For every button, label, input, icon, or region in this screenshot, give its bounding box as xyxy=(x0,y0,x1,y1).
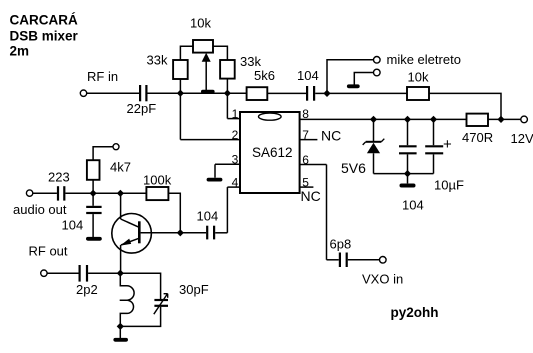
wire pot right end to 33k right xyxy=(213,46,227,60)
svg-text:22pF: 22pF xyxy=(127,101,157,116)
svg-text:NC: NC xyxy=(321,128,341,144)
capacitor 104 audio xyxy=(86,207,101,213)
transistor Q1 body xyxy=(112,214,152,254)
potentiometer 10k body xyxy=(193,40,213,53)
resistor 33k right xyxy=(220,60,235,79)
svg-text:10k: 10k xyxy=(190,16,211,31)
svg-text:RF out: RF out xyxy=(29,244,68,259)
svg-text:5V6: 5V6 xyxy=(341,160,366,176)
svg-text:5k6: 5k6 xyxy=(254,68,275,83)
node junction tank bottom xyxy=(117,323,124,330)
pot wiper arrow xyxy=(202,53,211,90)
svg-text:3: 3 xyxy=(232,153,239,167)
capacitor 10uF electrolytic xyxy=(425,146,443,153)
svg-text:4k7: 4k7 xyxy=(110,160,131,175)
node junction C104 top xyxy=(404,116,411,123)
node junction bottom rail xyxy=(404,170,411,177)
svg-text:+: + xyxy=(443,136,452,153)
wire 33k right to node xyxy=(226,79,228,94)
terminal RF in xyxy=(80,90,86,96)
terminal mike eletreto bottom xyxy=(374,69,381,76)
transistor Q1 base bar xyxy=(138,221,141,243)
svg-text:audio out: audio out xyxy=(13,202,67,217)
svg-text:6: 6 xyxy=(302,153,309,167)
resistor 470R xyxy=(467,114,489,126)
node junction audio 4k7 xyxy=(90,190,97,197)
svg-text:100k: 100k xyxy=(143,173,172,188)
wire 470R to 12V terminal xyxy=(488,118,521,120)
trimmer capacitor 30pF xyxy=(154,294,168,315)
node junction 10uF top xyxy=(430,116,437,123)
node junction tank top xyxy=(117,270,124,277)
node junction mike xyxy=(323,90,330,97)
ground mike xyxy=(349,84,358,88)
svg-text:4: 4 xyxy=(232,175,239,189)
terminal VXO in xyxy=(380,257,387,264)
pin 7 stub NC xyxy=(300,139,318,141)
svg-text:8: 8 xyxy=(302,107,309,121)
pin 4 wire to C104 base xyxy=(215,187,240,233)
wire trimmer to bottom node xyxy=(120,307,160,327)
transistor Q1 emitter with arrow xyxy=(120,238,139,273)
terminal mike eletreto top xyxy=(374,57,381,64)
wire 10uF to bottom rail xyxy=(433,154,435,173)
wire 5k6 to C 104 xyxy=(267,92,306,94)
ground tank xyxy=(115,326,126,339)
svg-text:104: 104 xyxy=(62,218,84,233)
capacitor 6p8 xyxy=(340,253,347,268)
svg-text:33k: 33k xyxy=(240,54,261,69)
svg-text:10µF: 10µF xyxy=(434,178,464,193)
transistor Q1 collector xyxy=(121,193,139,227)
wire supply node to zener xyxy=(373,119,375,141)
resistor 33k left xyxy=(173,60,188,79)
node junction zener top xyxy=(370,116,377,123)
inductor L1 xyxy=(120,273,134,326)
pin 3 wire to ground xyxy=(215,164,240,177)
svg-text:RF in: RF in xyxy=(87,69,118,84)
ground supply bypass xyxy=(402,174,414,186)
svg-text:DSB mixer: DSB mixer xyxy=(10,28,79,43)
svg-text:mike eletreto: mike eletreto xyxy=(387,52,461,67)
node junction 12V xyxy=(497,116,504,123)
zener diode 5V6 xyxy=(363,139,385,154)
resistor 4k7 xyxy=(87,160,100,180)
wire tank node to trimmer xyxy=(120,273,160,299)
resistor 10k right xyxy=(407,87,429,100)
pin 1 wire to RF node xyxy=(227,93,240,118)
svg-text:223: 223 xyxy=(48,170,70,185)
svg-text:12V: 12V xyxy=(511,131,533,146)
wire 2p2 to tank node xyxy=(88,272,120,274)
capacitor 104 top xyxy=(307,86,314,101)
capacitor 223 xyxy=(58,186,64,200)
wire supply node to 10uF xyxy=(433,119,435,145)
resistor 5k6 xyxy=(247,87,268,100)
svg-text:2p2: 2p2 xyxy=(76,282,98,297)
wire 6p8 to VXO terminal xyxy=(348,259,380,261)
wire 10k to 12V corner xyxy=(429,93,501,119)
ground audio C104 xyxy=(88,214,100,239)
svg-text:5: 5 xyxy=(302,175,309,189)
wire supply node to C104 bypass xyxy=(407,119,409,145)
pin 5 stub NC xyxy=(300,186,314,188)
capacitor 104 base xyxy=(207,226,214,240)
terminal 12V xyxy=(521,116,528,123)
svg-text:7: 7 xyxy=(302,128,309,142)
pin 2 wire to left node xyxy=(180,93,240,139)
terminal RF out xyxy=(41,270,47,276)
wire mike node to 10k xyxy=(327,92,407,94)
node junction 33k right xyxy=(224,90,231,97)
svg-text:SA612: SA612 xyxy=(252,145,293,160)
wire C223 to 100k xyxy=(65,192,146,194)
wire audio terminal to C223 xyxy=(33,192,57,194)
wire zener to bottom rail xyxy=(373,153,375,173)
svg-text:py2ohh: py2ohh xyxy=(391,305,439,320)
svg-text:104: 104 xyxy=(402,198,424,213)
capacitor 104 bypass xyxy=(399,146,417,153)
svg-text:6p8: 6p8 xyxy=(330,237,352,252)
wire RF out terminal to 2p2 xyxy=(47,272,78,274)
ground pin 3 xyxy=(209,178,221,182)
svg-text:104: 104 xyxy=(197,209,219,224)
title text CARCARA DSB mixer 2m xyxy=(10,13,79,59)
wire base lead to C104 xyxy=(141,232,207,234)
svg-text:30pF: 30pF xyxy=(179,282,209,297)
wire 100k to base node xyxy=(168,193,180,233)
capacitor 2p2 xyxy=(80,265,87,282)
wire bottom rail zener to 10uF xyxy=(374,173,434,175)
wire C104 to mike node xyxy=(315,92,327,94)
svg-text:104: 104 xyxy=(297,68,319,83)
svg-text:2m: 2m xyxy=(10,44,30,59)
svg-text:10k: 10k xyxy=(408,70,429,85)
svg-text:2: 2 xyxy=(232,128,239,142)
pin 6 wire to 6p8 xyxy=(300,165,339,260)
terminal audio out xyxy=(26,190,32,196)
svg-text:NC: NC xyxy=(301,188,321,204)
wire mike bottom terminal to ground xyxy=(354,73,373,85)
svg-text:CARCARÁ: CARCARÁ xyxy=(10,13,78,28)
op-amp IC SA612 body xyxy=(240,112,300,193)
node junction base xyxy=(177,229,184,236)
wire audio node down to C104 xyxy=(92,193,94,206)
wire pot left end to 33k left xyxy=(180,46,193,60)
wire 4k7 to audio node xyxy=(92,180,94,194)
svg-text:470R: 470R xyxy=(462,130,493,145)
svg-text:33k: 33k xyxy=(147,53,168,68)
wire 22pF to 5k6 through nodes xyxy=(148,92,247,94)
svg-text:VXO in: VXO in xyxy=(362,272,403,287)
node junction 33k left xyxy=(177,90,184,97)
capacitor 22pF xyxy=(140,85,146,101)
pot wiper end bar xyxy=(203,90,213,94)
wire RF in terminal to C 22pF xyxy=(87,92,139,94)
wire 4k7 terminal to resistor xyxy=(93,147,113,161)
svg-text:1: 1 xyxy=(232,107,239,121)
terminal 4k7 top xyxy=(113,144,119,150)
wire mike node up xyxy=(327,60,373,94)
node junction collector xyxy=(117,190,124,197)
wire 33k left to node xyxy=(179,79,181,93)
wire C104 bypass to bottom rail xyxy=(407,154,409,173)
resistor 100k xyxy=(146,187,168,200)
wire supply rail pin8 to 470R xyxy=(300,118,467,120)
